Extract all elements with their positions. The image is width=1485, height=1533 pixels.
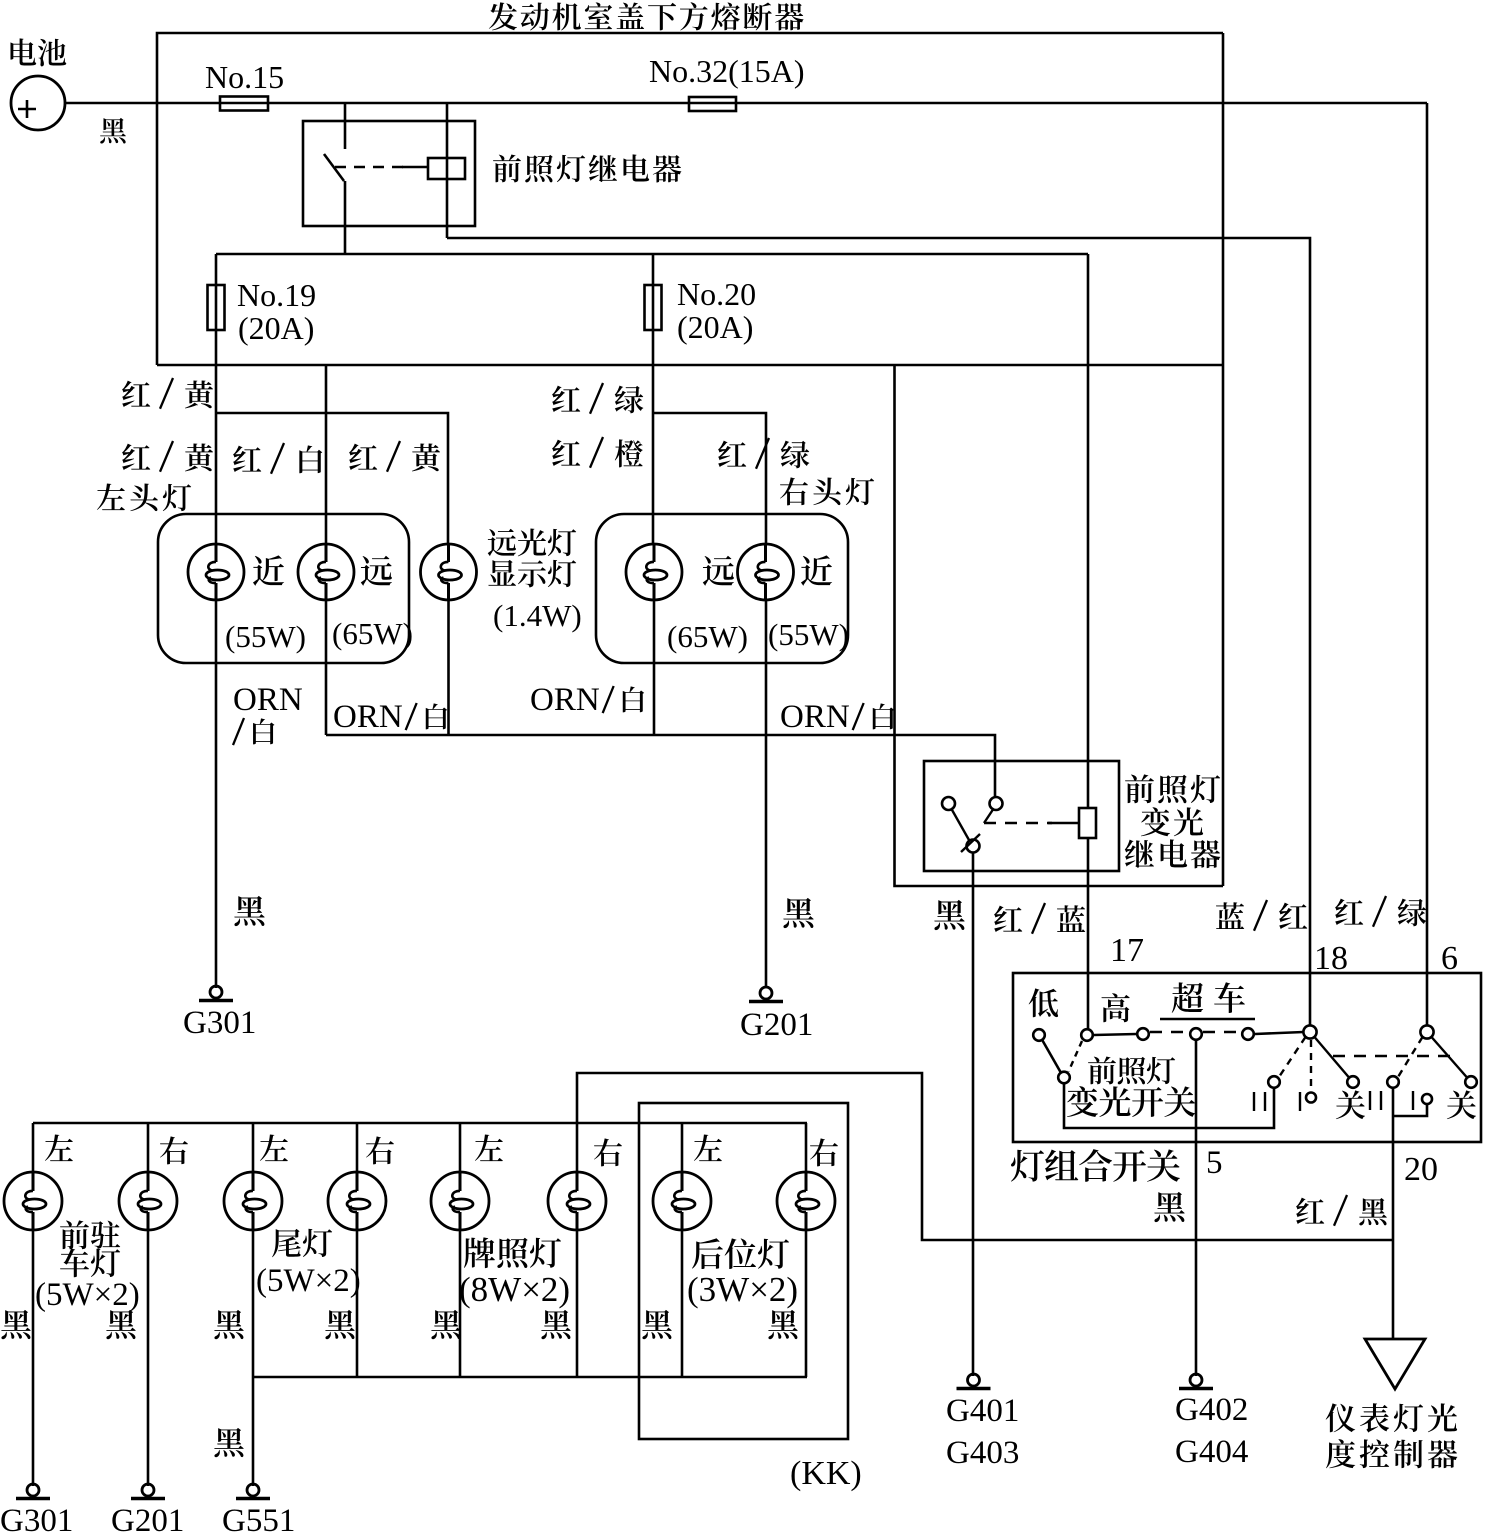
label 黑 [783, 898, 813, 928]
svg-text:G404: G404 [1175, 1434, 1248, 1470]
headlight relay switch contact [344, 103, 347, 149]
svg-text:No.19: No.19 [237, 277, 316, 313]
switch blade: high position (dashed) [1069, 1041, 1083, 1072]
node: battery output wire 黑 [100, 118, 126, 144]
contact B3 [1347, 1076, 1359, 1088]
wire: branch to right low-beam [654, 413, 766, 544]
aux contact S2 [1422, 1094, 1432, 1104]
svg-text:No.32(15A): No.32(15A) [649, 53, 805, 89]
svg-text:(1.4W): (1.4W) [493, 598, 582, 633]
label 牌照灯 (8W×2) [464, 1237, 495, 1268]
label 低 [1029, 988, 1058, 1017]
svg-text:(5W×2): (5W×2) [35, 1277, 140, 1313]
switch blades from node 18 [1279, 1037, 1306, 1077]
wire: to instrument light controller [1392, 1240, 1395, 1339]
wire + lamp: front parking left [32, 1123, 35, 1172]
ground G551 [247, 1484, 259, 1496]
switch contact [1137, 1028, 1149, 1040]
wire + lamp: tail left [252, 1123, 255, 1172]
wire: main B+ feed [65, 102, 1427, 105]
svg-text:G551: G551 [222, 1503, 295, 1533]
fuse No.15 [220, 97, 268, 111]
wire: 高 to next contact [1094, 1034, 1137, 1035]
svg-text:(3W×2): (3W×2) [687, 1270, 798, 1309]
svg-text:20: 20 [1404, 1151, 1438, 1188]
wire: bus right edge down to dimmer relay coil [1087, 254, 1090, 808]
lamp panel bottom rail [253, 1376, 807, 1379]
svg-text:ORN: ORN [530, 682, 600, 718]
svg-text:5: 5 [1206, 1145, 1223, 1181]
headlight relay coil [428, 158, 465, 179]
label 前照灯变光开关 [1088, 1056, 1116, 1084]
aux contact S1 [1306, 1093, 1316, 1103]
label 关 [1336, 1090, 1365, 1119]
switch node 6 [1420, 1025, 1433, 1038]
label 黑 (ground lead) [214, 1428, 243, 1457]
svg-text:(55W): (55W) [225, 619, 306, 654]
battery B+ (电池) [11, 76, 65, 130]
svg-text:18: 18 [1314, 940, 1348, 977]
svg-text:(KK): (KK) [790, 1455, 862, 1492]
wire: coil to dimmer switch terminal 17 [1087, 838, 1090, 1029]
wire + lamp: license plate left [459, 1123, 462, 1172]
light combination switch (灯组合开关) box [1013, 973, 1481, 1142]
left headlight enclosure [158, 514, 409, 663]
label 黑 [431, 1310, 460, 1339]
dimmer relay common contact [967, 840, 980, 853]
fuse box under hood (发动机室盖下方熔断器) title [489, 2, 517, 30]
svg-text:(5W×2): (5W×2) [256, 1263, 361, 1299]
ground G402 G404 [1190, 1374, 1202, 1386]
fuse No.19 (20A) [215, 254, 218, 544]
(KK) rear lamp box [639, 1103, 848, 1439]
switch contact 低 [1033, 1029, 1045, 1041]
label 红/蓝 [994, 906, 1022, 932]
wire: left high-beam feed [325, 365, 328, 544]
left headlight (左头灯) label [97, 483, 125, 510]
label 红/绿 [1335, 899, 1363, 925]
wire: branch to high-beam indicator [216, 413, 448, 544]
wire + lamp: rear position right [805, 1123, 808, 1172]
svg-text:17: 17 [1110, 932, 1144, 969]
label 黑 [234, 896, 264, 926]
label 黑 [768, 1310, 797, 1339]
svg-text:G301: G301 [0, 1503, 73, 1533]
wire: contact to node 18 [1255, 1032, 1304, 1034]
lamp: high beam indicator 远光灯显示灯 1.4W [421, 544, 477, 600]
lamp: right high beam 远 65W [626, 544, 682, 600]
dimmer relay coil [1079, 808, 1096, 838]
contact off position B2 [1268, 1076, 1280, 1088]
lamp: left high beam 远 65W [298, 544, 354, 600]
svg-text:G201: G201 [111, 1503, 184, 1533]
label 尾灯 (5W×2) [272, 1229, 301, 1257]
svg-text:(65W): (65W) [667, 619, 748, 654]
wire: fuse box bottom edge [157, 364, 1223, 367]
rear/parking lamp panel top rail [33, 1122, 807, 1125]
svg-text:ORN: ORN [233, 682, 303, 718]
svg-text:(8W×2): (8W×2) [459, 1270, 570, 1309]
dimmer blade pivot [1058, 1072, 1070, 1084]
wire + lamp: license plate right [576, 1123, 579, 1172]
dimmer relay contact A [942, 797, 955, 810]
wire: terminal 20 to rear lamps feed [577, 1073, 1393, 1240]
wire: left low-beam to ground [215, 600, 218, 988]
svg-text:ORN: ORN [780, 699, 850, 735]
label 前驻车灯 (5W×2) [60, 1220, 89, 1249]
svg-text:(20A): (20A) [677, 309, 753, 345]
label 后位灯 (3W×2) [692, 1238, 723, 1269]
label 前照灯继电器 [493, 154, 521, 182]
wire + lamp: tail right [356, 1123, 359, 1172]
ground G401 G403 [968, 1374, 980, 1386]
switch contact 高/17 [1081, 1029, 1093, 1041]
label 黑 [214, 1310, 243, 1339]
label 关 [1447, 1090, 1476, 1119]
label 黑 [1, 1310, 30, 1339]
svg-text:(20A): (20A) [238, 310, 314, 346]
instrument light dimmer (仪表灯光度控制器) symbol [1365, 1339, 1425, 1389]
wire: dimmer relay common to ground [972, 852, 975, 1376]
svg-text:G301: G301 [183, 1005, 256, 1041]
label 红/黑 [1296, 1198, 1324, 1224]
svg-text:G401: G401 [946, 1393, 1019, 1429]
headlight relay link (dashed) [335, 166, 404, 169]
svg-text:(55W): (55W) [768, 617, 849, 652]
contact B4 / terminal 20 [1387, 1076, 1399, 1088]
switch node 18 [1303, 1025, 1316, 1038]
wire + lamp: front parking right [147, 1123, 150, 1172]
wire: No.32 output down to switch terminal 6 [1426, 103, 1429, 1026]
label 黑 [934, 900, 964, 930]
wire: link to aux contact S2 [1393, 1104, 1427, 1116]
label 黑 [1154, 1192, 1184, 1222]
wire + lamp: rear position left [681, 1123, 684, 1172]
label 黑 [642, 1310, 671, 1339]
wire color labels 红/黄 红/白 红/黄 红/绿 红/橙 红/绿 [122, 381, 150, 407]
switch blade: low position [1043, 1041, 1061, 1073]
label 前照灯变光继电器 [1125, 774, 1154, 803]
switch contact [1242, 1028, 1254, 1040]
dashed link right section [1333, 1055, 1453, 1057]
dashed link between contacts [1150, 1031, 1189, 1034]
wire: blade common to off contact [1064, 1084, 1274, 1128]
position marks || | [1253, 1092, 1255, 1111]
wire: fuse box right edge down to dimmer relay [1222, 33, 1225, 886]
wire: terminal 5 contact down to ground [1195, 1041, 1198, 1376]
fuse No.32 (15A) [689, 97, 736, 111]
wire: fuse bus from relay output [216, 253, 1088, 256]
svg-text:No.20: No.20 [677, 276, 756, 312]
lamp: left low beam 近 55W [188, 544, 244, 600]
label 黑 [541, 1310, 570, 1339]
dimmer relay link (dashed) [984, 822, 1052, 825]
fuse No.20 (20A) [652, 254, 655, 544]
fuse box enclosure [157, 33, 1223, 365]
dimmer relay blade [952, 809, 970, 840]
position marks || | [1369, 1091, 1371, 1110]
lamp: right low beam 近 55W [738, 544, 794, 600]
svg-text:G402: G402 [1175, 1392, 1248, 1428]
svg-text:6: 6 [1441, 940, 1458, 977]
headlight relay (前照灯继电器) box [303, 121, 475, 226]
contact B5 [1465, 1076, 1477, 1088]
label 黑 [325, 1310, 354, 1339]
label 灯组合开关 [1011, 1150, 1044, 1182]
wire: fuse box to dimmer relay assembly outline [895, 365, 1224, 886]
ground G201 (right headlight) [760, 987, 772, 999]
switch blades from node 6 [1398, 1037, 1423, 1077]
svg-text:ORN: ORN [333, 699, 403, 735]
wire: right low-beam to ground [765, 600, 768, 988]
wire: high-beam bus (ORN/白) to dimmer relay [325, 600, 328, 735]
label 蓝/红 [1216, 902, 1244, 929]
switch contact 5 [1190, 1028, 1202, 1040]
ground G301 (left headlight) [210, 986, 222, 998]
svg-text:(65W): (65W) [332, 616, 413, 651]
svg-text:G201: G201 [740, 1007, 813, 1043]
svg-text:No.15: No.15 [205, 59, 284, 95]
ground G301 [27, 1484, 39, 1496]
label 黑 [106, 1310, 135, 1339]
label 高 [1101, 993, 1129, 1022]
right headlight (右头灯) label [780, 477, 808, 505]
ground G201 [142, 1484, 154, 1496]
label 超车 (overtake) [1172, 982, 1203, 1013]
headlight dimmer relay (前照灯变光继电器) box [924, 761, 1119, 871]
svg-text:G403: G403 [946, 1435, 1019, 1471]
wire: terminal 20 down [1392, 1088, 1395, 1240]
dimmer relay contact B [990, 797, 1003, 810]
right headlight enclosure [596, 514, 848, 663]
wire: coil feed from main and out to dimmer switch 18 [446, 103, 449, 238]
